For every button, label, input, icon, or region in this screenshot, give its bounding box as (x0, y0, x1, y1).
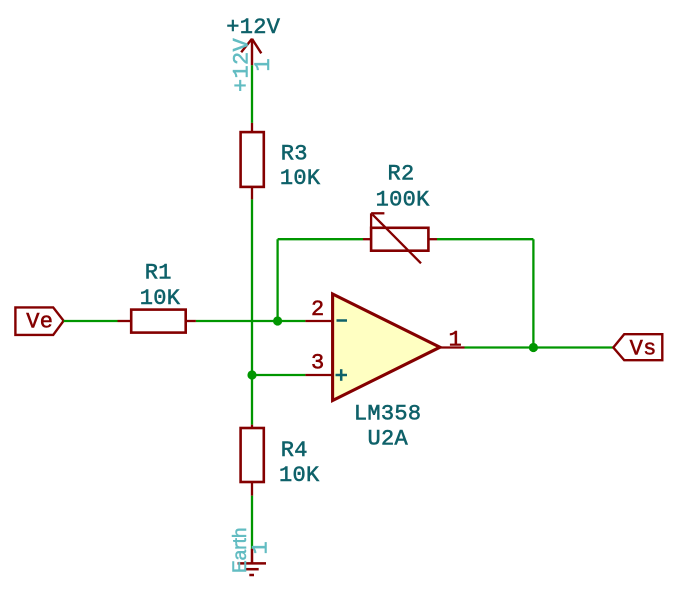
svg-text:3: 3 (311, 350, 325, 375)
junction at pin 2 wire (273, 316, 282, 325)
resistor R1 (118, 310, 196, 333)
svg-text:U2A: U2A (368, 427, 409, 452)
svg-text:2: 2 (311, 297, 325, 322)
wire R2 to feedback right vertical (437, 238, 533, 240)
svg-text:10K: 10K (279, 463, 320, 488)
inverting input minus mark (337, 319, 348, 322)
resistor R4 (241, 425, 264, 496)
wire +12V to R3 (251, 65, 253, 123)
svg-text:10K: 10K (280, 166, 321, 191)
wire feedback top-left to R2 (278, 238, 363, 240)
pin 1 lead (440, 346, 465, 348)
svg-text:R4: R4 (281, 438, 308, 463)
svg-text:Vs: Vs (630, 337, 657, 362)
wire feedback left vertical (276, 239, 278, 321)
svg-text:10K: 10K (140, 286, 181, 311)
pin 2 lead (305, 320, 332, 322)
wire op-amp output to Vs (465, 346, 614, 348)
wire R3 to R4 (vertical through crossing) (251, 199, 253, 424)
ground symbol (238, 549, 266, 575)
svg-text:Ve: Ve (26, 310, 53, 335)
svg-text:LM358: LM358 (354, 402, 422, 427)
power symbol +12V arrow (241, 39, 261, 66)
global label Vs (613, 334, 662, 361)
svg-text:100K: 100K (376, 188, 431, 213)
svg-text:+12V: +12V (226, 15, 281, 40)
junction at output wire (529, 343, 538, 352)
op-amp U2A (305, 294, 464, 401)
wire R4 to ground (251, 496, 253, 549)
resistor R3 (241, 123, 264, 199)
wire Ve to R1 (64, 320, 118, 322)
wire R1 to op-amp pin 2 (196, 320, 306, 322)
svg-text:R2: R2 (388, 162, 415, 187)
global label Ve (15, 307, 63, 335)
svg-text:1: 1 (249, 541, 274, 555)
pin 3 lead (305, 374, 332, 376)
svg-text:R3: R3 (281, 142, 308, 167)
resistor R2 (variable) (363, 213, 437, 263)
svg-text:1: 1 (251, 58, 276, 72)
svg-text:R1: R1 (145, 261, 172, 286)
wire feedback right vertical (532, 239, 534, 347)
non-inverting input plus mark (336, 374, 348, 377)
wire node to op-amp pin 3 (252, 374, 305, 376)
svg-text:1: 1 (449, 328, 463, 353)
junction at pin 3 wire (247, 370, 256, 379)
